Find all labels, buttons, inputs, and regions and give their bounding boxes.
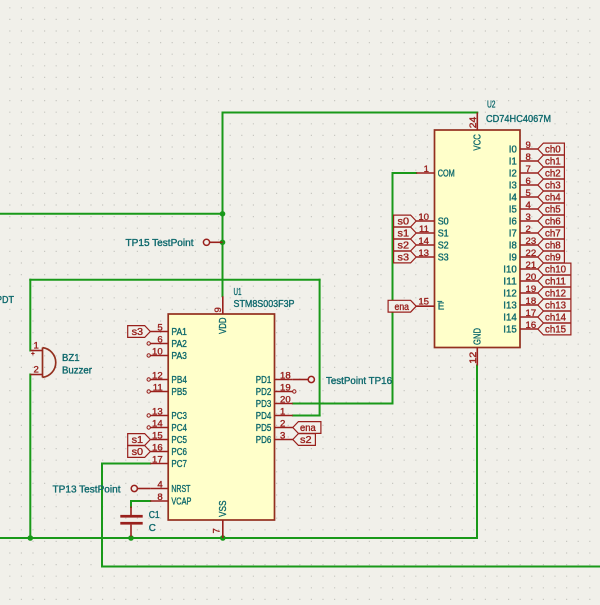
- U1 pin 2 PD5: [256, 419, 293, 435]
- svg-text:PDT: PDT: [0, 295, 14, 306]
- svg-text:U2: U2: [487, 100, 496, 111]
- svg-text:20: 20: [280, 395, 291, 406]
- hierarchical label ch15: [538, 323, 571, 336]
- ic U2 CD74HC4067M body: [435, 130, 521, 348]
- U2 pin 8 I1: [509, 152, 538, 168]
- U1 pin 17 PC7: [150, 455, 187, 471]
- svg-text:VCC: VCC: [472, 134, 483, 151]
- svg-text:VCAP: VCAP: [171, 497, 191, 508]
- svg-text:NRST: NRST: [171, 484, 190, 495]
- U1 pin 13 PC3: [147, 407, 187, 423]
- svg-text:11: 11: [153, 383, 163, 394]
- svg-text:4: 4: [157, 480, 163, 491]
- svg-text:TP15 TestPoint: TP15 TestPoint: [126, 238, 194, 249]
- svg-text:ch13: ch13: [545, 301, 567, 312]
- U1 pin 18 PD1: [256, 371, 293, 387]
- svg-text:BZ1: BZ1: [62, 353, 80, 364]
- svg-text:17: 17: [526, 308, 537, 319]
- svg-text:E: E: [438, 302, 445, 313]
- U1 pin 8 VCAP: [150, 492, 192, 508]
- U2 pin 5 I4: [509, 188, 538, 204]
- svg-text:PB4: PB4: [171, 375, 187, 386]
- svg-text:1: 1: [280, 407, 285, 418]
- svg-text:I15: I15: [503, 325, 517, 336]
- svg-text:ena: ena: [300, 423, 316, 434]
- svg-text:ch5: ch5: [545, 205, 561, 216]
- svg-text:7: 7: [526, 164, 531, 175]
- U1 pin 4 NRST: [150, 480, 190, 496]
- svg-text:10: 10: [152, 347, 163, 358]
- U1 pin 7 VSS: [212, 500, 229, 538]
- svg-text:I11: I11: [503, 277, 517, 288]
- U1 pin 10 PA3: [147, 347, 187, 363]
- svg-text:I4: I4: [509, 193, 518, 204]
- svg-text:TP13 TestPoint: TP13 TestPoint: [53, 484, 121, 495]
- svg-text:6: 6: [157, 335, 162, 346]
- svg-text:5: 5: [157, 323, 162, 334]
- svg-text:ch9: ch9: [545, 253, 561, 264]
- svg-text:S3: S3: [438, 253, 450, 264]
- svg-text:s1: s1: [132, 435, 144, 446]
- svg-text:PD1: PD1: [256, 375, 272, 386]
- svg-text:S2: S2: [438, 241, 449, 252]
- svg-text:I6: I6: [509, 217, 518, 228]
- hierarchical label ch13: [538, 299, 571, 312]
- svg-text:s2: s2: [398, 241, 410, 252]
- U2 pin 17 I14: [503, 308, 538, 324]
- wire bottom rail to right edge: [102, 566, 600, 568]
- svg-text:12: 12: [468, 352, 479, 364]
- svg-text:s1: s1: [398, 229, 410, 240]
- hierarchical label ch7: [538, 227, 565, 240]
- svg-text:1: 1: [424, 164, 429, 175]
- svg-text:PC4: PC4: [171, 423, 187, 434]
- svg-text:21: 21: [526, 260, 537, 271]
- wire buzzer pin2 to GND rail: [29, 375, 31, 539]
- svg-text:I9: I9: [509, 253, 517, 264]
- svg-text:ch14: ch14: [545, 313, 567, 324]
- U1 pin 5 PA1: [150, 323, 187, 339]
- wire from U1 PD3: [293, 403, 393, 405]
- svg-text:4: 4: [526, 200, 532, 211]
- wire vertical VDD net: [222, 113, 224, 297]
- wire to U2 VCC: [223, 112, 478, 114]
- U2 pin 24 VCC: [468, 113, 484, 151]
- U2 pin 16 I15: [503, 320, 538, 336]
- svg-text:9: 9: [526, 140, 531, 151]
- U1 pin 9 VDD: [213, 296, 229, 334]
- svg-text:I5: I5: [509, 205, 518, 216]
- svg-text:13: 13: [418, 248, 429, 259]
- svg-text:VSS: VSS: [218, 500, 229, 517]
- svg-text:19: 19: [526, 284, 537, 295]
- svg-text:PA3: PA3: [171, 351, 187, 362]
- U1 pin 11 PB5: [147, 383, 187, 399]
- U2 pin 13 S3: [416, 248, 449, 264]
- svg-text:VDD: VDD: [218, 318, 229, 335]
- svg-text:ch1: ch1: [545, 157, 561, 168]
- svg-text:PD2: PD2: [256, 387, 272, 398]
- wire U2 GND down to rail: [476, 366, 478, 539]
- hierarchical label ch0: [538, 143, 565, 156]
- testpoint TP16: [293, 376, 393, 387]
- svg-text:I3: I3: [509, 181, 518, 192]
- U2 pin 10 S0: [416, 212, 449, 228]
- svg-text:20: 20: [526, 272, 537, 283]
- svg-text:9: 9: [213, 307, 224, 312]
- svg-text:PD3: PD3: [256, 399, 272, 410]
- svg-text:I10: I10: [503, 265, 517, 276]
- hierarchical label ch14: [538, 311, 571, 324]
- svg-text:16: 16: [526, 320, 537, 331]
- hierarchical label ch2: [538, 167, 565, 180]
- svg-text:12: 12: [152, 371, 163, 382]
- svg-text:ch7: ch7: [545, 229, 561, 240]
- U2 pin 23 I8: [509, 236, 538, 252]
- svg-text:S0: S0: [438, 217, 450, 228]
- svg-text:I8: I8: [509, 241, 518, 252]
- svg-text:U1: U1: [234, 287, 242, 298]
- U1 pin 1 PD4: [256, 407, 293, 423]
- svg-text:ch3: ch3: [545, 181, 561, 192]
- wire buzzer to PD4 horizontal: [30, 279, 319, 281]
- junction buzzer GND: [28, 535, 34, 541]
- svg-text:PB5: PB5: [171, 387, 187, 398]
- U2 pin 12 GND: [468, 328, 484, 366]
- svg-text:6: 6: [526, 176, 531, 187]
- wire to U1 PD4: [293, 415, 320, 417]
- svg-text:24: 24: [468, 116, 479, 128]
- junction TP15: [220, 240, 226, 246]
- svg-text:ch10: ch10: [545, 265, 567, 276]
- svg-text:ch12: ch12: [545, 289, 566, 300]
- wire from U1 PC7: [102, 463, 150, 465]
- svg-text:PC7: PC7: [171, 459, 187, 470]
- U2 pin 3 I6: [509, 212, 538, 228]
- wire VDD rail from left edge to junction: [0, 213, 223, 215]
- wire PD3 to COM vertical: [392, 173, 394, 404]
- wire PC7 net vertical: [101, 464, 103, 567]
- U2 pin 19 I12: [503, 284, 538, 300]
- svg-text:PC3: PC3: [171, 411, 187, 422]
- svg-text:16: 16: [152, 443, 163, 454]
- svg-text:3: 3: [526, 212, 531, 223]
- svg-text:PA2: PA2: [171, 339, 187, 350]
- svg-text:14: 14: [152, 419, 163, 430]
- svg-text:C: C: [149, 523, 156, 534]
- svg-text:C1: C1: [149, 510, 160, 521]
- U1 pin 6 PA2: [147, 335, 187, 351]
- svg-text:I12: I12: [503, 289, 517, 300]
- U2 pin 7 I2: [509, 164, 538, 180]
- wire C1 top stub: [130, 501, 132, 507]
- svg-text:GND: GND: [472, 328, 483, 345]
- hierarchical label ena at U1 PD5: [293, 422, 321, 435]
- U1 pin 20 PD3: [256, 395, 293, 411]
- hierarchical label ch1: [538, 155, 565, 168]
- svg-text:15: 15: [152, 431, 163, 442]
- wire to U2 COM: [393, 172, 417, 174]
- hierarchical label s1 at U2 S1: [394, 227, 417, 240]
- svg-text:I7: I7: [509, 229, 517, 240]
- svg-text:ena: ena: [395, 302, 410, 313]
- junction C1 GND: [128, 535, 134, 541]
- svg-text:5: 5: [526, 188, 531, 199]
- U1 pin 19 PD2: [256, 383, 296, 399]
- svg-text:17: 17: [152, 455, 163, 466]
- svg-text:s2: s2: [300, 435, 312, 446]
- U2 pin 9 I0: [509, 140, 538, 156]
- svg-text:18: 18: [280, 371, 291, 382]
- svg-text:PC5: PC5: [171, 435, 187, 446]
- wire VCAP to C1: [131, 500, 150, 502]
- svg-text:s0: s0: [132, 447, 144, 458]
- svg-text:19: 19: [280, 383, 291, 394]
- svg-text:22: 22: [526, 248, 537, 259]
- U2 pin 14 S2: [416, 236, 449, 252]
- U1 pin 3 PD6: [256, 431, 293, 447]
- svg-text:3: 3: [280, 431, 285, 442]
- svg-text:PD5: PD5: [256, 423, 272, 434]
- svg-text:I0: I0: [509, 145, 518, 156]
- U2 pin 21 I10: [503, 260, 538, 276]
- U2 pin 11 S1: [416, 224, 449, 240]
- svg-text:s0: s0: [398, 217, 410, 228]
- svg-text:ch8: ch8: [545, 241, 561, 252]
- hierarchical label ch8: [538, 239, 565, 252]
- svg-text:Buzzer: Buzzer: [62, 365, 93, 376]
- svg-text:I1: I1: [509, 157, 517, 168]
- svg-text:I2: I2: [509, 169, 517, 180]
- hierarchical label ch12: [538, 287, 571, 300]
- hierarchical label ch11: [538, 275, 571, 288]
- svg-text:8: 8: [526, 152, 531, 163]
- U2 pin 1 COM: [416, 164, 455, 180]
- hierarchical label ch3: [538, 179, 565, 192]
- ic U1 STM8S003F3P body: [168, 314, 274, 520]
- svg-text:2: 2: [526, 224, 531, 235]
- wire buzzer net vertical: [319, 280, 321, 416]
- svg-text:ch2: ch2: [545, 169, 561, 180]
- svg-text:10: 10: [418, 212, 429, 223]
- svg-text:23: 23: [526, 236, 537, 247]
- svg-text:13: 13: [152, 407, 163, 418]
- wire GND rail: [0, 537, 477, 539]
- svg-text:8: 8: [157, 492, 162, 503]
- hierarchical label ch10: [538, 263, 571, 276]
- svg-text:s3: s3: [398, 253, 410, 264]
- testpoint TP15: [126, 238, 223, 249]
- svg-text:I13: I13: [503, 301, 517, 312]
- svg-text:PA1: PA1: [171, 327, 187, 338]
- hierarchical label ch9: [538, 251, 565, 264]
- U2 pin 18 I13: [503, 296, 538, 312]
- svg-text:ch0: ch0: [545, 145, 561, 156]
- svg-text:PD4: PD4: [256, 411, 272, 422]
- U1 pin 16 PC6: [150, 443, 187, 459]
- U2 pin 4 I5: [509, 200, 538, 216]
- hierarchical label ch6: [538, 215, 565, 228]
- U2 pin 20 I11: [503, 272, 538, 288]
- U2 pin 22 I9: [509, 248, 538, 264]
- hierarchical label s1 at U1 PC5: [128, 434, 151, 447]
- U2 pin 6 I3: [509, 176, 538, 192]
- hierarchical label ch5: [538, 203, 565, 216]
- svg-text:COM: COM: [438, 169, 455, 180]
- U1 pin 12 PB4: [147, 371, 187, 387]
- hierarchical label ch4: [538, 191, 565, 204]
- wire buzzer pin1 vertical: [29, 280, 31, 351]
- hierarchical label s0 at U1 PC6: [128, 446, 151, 459]
- hierarchical label s2 at U2 S2: [394, 239, 417, 252]
- svg-text:CD74HC4067M: CD74HC4067M: [486, 114, 551, 125]
- svg-text:2: 2: [280, 419, 285, 430]
- U1 pin 14 PC4: [147, 419, 187, 435]
- svg-text:18: 18: [526, 296, 537, 307]
- svg-text:STM8S003F3P: STM8S003F3P: [234, 299, 295, 310]
- svg-text:s3: s3: [132, 327, 144, 338]
- svg-text:S1: S1: [438, 229, 449, 240]
- testpoint TP13: [53, 484, 151, 495]
- hierarchical label s3 at U2 S3: [394, 251, 417, 264]
- svg-text:ch15: ch15: [545, 325, 567, 336]
- svg-text:2: 2: [34, 364, 39, 375]
- U2 pin 2 I7: [509, 224, 538, 240]
- svg-text:7: 7: [212, 528, 223, 533]
- junction VDD rail: [220, 211, 226, 217]
- hierarchical label ena at U2 E: [388, 300, 416, 313]
- junction VSS GND: [220, 535, 226, 541]
- svg-text:1: 1: [34, 340, 39, 351]
- hierarchical label s0 at U2 S0: [394, 215, 417, 228]
- svg-text:11: 11: [419, 224, 429, 235]
- hierarchical label s2 at U1 PD6: [293, 434, 316, 447]
- svg-text:ch4: ch4: [545, 193, 561, 204]
- svg-text:I14: I14: [503, 313, 517, 324]
- svg-text:PD6: PD6: [256, 435, 272, 446]
- svg-text:ch11: ch11: [545, 277, 566, 288]
- svg-text:ch6: ch6: [545, 217, 561, 228]
- svg-text:PC6: PC6: [171, 447, 187, 458]
- U1 pin 15 PC5: [150, 431, 187, 447]
- svg-text:14: 14: [418, 236, 429, 247]
- capacitor C1: [120, 507, 159, 537]
- U2 pin 15 E enable: [416, 296, 445, 312]
- buzzer BZ1: [30, 340, 92, 377]
- hierarchical label s3 at U1 PA1: [128, 326, 151, 339]
- svg-text:15: 15: [418, 296, 429, 307]
- svg-text:TestPoint TP16: TestPoint TP16: [326, 376, 393, 387]
